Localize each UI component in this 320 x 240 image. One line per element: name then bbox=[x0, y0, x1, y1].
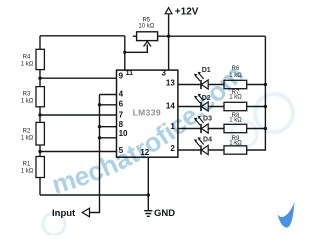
wire +12V vertical to pin 3 bbox=[168, 14, 170, 70]
node rail row2 bbox=[264, 105, 267, 108]
LED D4 bbox=[194, 136, 212, 154]
resistor R8 bbox=[224, 113, 247, 133]
watermark circle 3 bbox=[43, 213, 65, 235]
node divider tap2 bbox=[38, 113, 41, 116]
svg-text:6: 6 bbox=[119, 100, 124, 109]
wire ground stem bbox=[147, 195, 149, 210]
ground bbox=[144, 208, 175, 219]
svg-text:LM339: LM339 bbox=[133, 108, 161, 118]
svg-text:7: 7 bbox=[119, 110, 124, 119]
+12V supply symbol bbox=[165, 7, 199, 18]
node bus pin6 bbox=[98, 103, 101, 106]
wire tap1 to pin 9 bbox=[40, 77, 117, 79]
svg-text:R3: R3 bbox=[23, 91, 31, 97]
wire tap3 to pin 5 bbox=[40, 151, 117, 153]
LED D1 bbox=[194, 67, 211, 89]
wire row2 led-resistor bbox=[178, 106, 266, 108]
svg-text:1 kΩ: 1 kΩ bbox=[21, 136, 34, 142]
wire input bus vertical bbox=[90, 95, 100, 213]
svg-text:1 kΩ: 1 kΩ bbox=[21, 62, 34, 68]
wire pin 11 vertical bbox=[124, 36, 126, 70]
node +12V pot junction bbox=[167, 35, 170, 38]
potentiometer R5 bbox=[137, 18, 158, 47]
wire bottom ground rail bbox=[40, 194, 148, 196]
resistor R2 bbox=[36, 122, 44, 145]
resistor R7 bbox=[224, 90, 247, 111]
node divider tap1 bbox=[38, 77, 41, 80]
LED D2 bbox=[194, 94, 211, 111]
node bus pin8 bbox=[98, 125, 101, 128]
wire bus rung pin 4 bbox=[100, 94, 117, 96]
node ground junction bbox=[147, 193, 150, 196]
svg-text:R1: R1 bbox=[23, 162, 31, 168]
node divider tap3 bbox=[38, 150, 41, 153]
wire tap2 to pin 7 bbox=[40, 114, 117, 116]
wire pot wiper to pin 11 line bbox=[125, 45, 148, 53]
wire bus rung pin 6 bbox=[100, 104, 117, 106]
svg-text:3: 3 bbox=[162, 69, 167, 78]
wire bus rung pin 10 bbox=[100, 137, 117, 139]
svg-text:11: 11 bbox=[126, 70, 134, 77]
wire row1 led-resistor bbox=[178, 84, 266, 86]
wire row3 led-resistor bbox=[178, 128, 266, 130]
node wiper junction bbox=[123, 51, 126, 54]
svg-text:D1: D1 bbox=[202, 67, 211, 74]
resistor R1 bbox=[36, 157, 44, 178]
logo swoosh bbox=[278, 202, 295, 228]
svg-text:10 kΩ: 10 kΩ bbox=[138, 23, 154, 29]
wire top rail from divider top to pin 11 corner bbox=[40, 35, 125, 37]
wire divider chain vertical segments bbox=[39, 36, 41, 195]
svg-text:8: 8 bbox=[119, 120, 124, 129]
svg-text:R2: R2 bbox=[23, 128, 31, 134]
svg-text:GND: GND bbox=[154, 208, 175, 219]
watermark circle 1 bbox=[255, 94, 293, 132]
svg-text:4: 4 bbox=[119, 90, 124, 99]
svg-text:13: 13 bbox=[166, 79, 175, 88]
watermark text mechatrofice.com bbox=[48, 59, 249, 200]
op-amp U1 LM339 bbox=[117, 70, 178, 157]
node bus pin10 bbox=[98, 136, 101, 139]
svg-text:1 kΩ: 1 kΩ bbox=[21, 169, 34, 175]
resistor R4 bbox=[36, 49, 44, 69]
resistor R6 bbox=[224, 66, 247, 89]
wire bus rung pin 8 bbox=[100, 126, 117, 128]
svg-text:10: 10 bbox=[119, 129, 128, 138]
wire pot left stub bbox=[133, 35, 137, 37]
wire right rail vertical bbox=[247, 36, 266, 150]
node rail row1 bbox=[264, 83, 267, 86]
svg-text:+12V: +12V bbox=[175, 7, 199, 18]
input connector bbox=[52, 208, 90, 219]
resistor R3 bbox=[36, 87, 44, 107]
node rail row3 bbox=[264, 127, 267, 130]
resistor R9 bbox=[224, 136, 247, 154]
wire row4 led-resistor bbox=[178, 149, 224, 151]
watermark circle 2 bbox=[231, 121, 257, 147]
svg-text:1 kΩ: 1 kΩ bbox=[21, 99, 34, 105]
wire pot right to +12V rail and top right rail bbox=[158, 35, 266, 37]
svg-text:D4: D4 bbox=[203, 136, 212, 143]
svg-text:9: 9 bbox=[119, 71, 124, 80]
LED D3 bbox=[194, 115, 212, 133]
wire pin 12 to ground rail bbox=[147, 157, 149, 195]
svg-text:R4: R4 bbox=[23, 54, 31, 60]
